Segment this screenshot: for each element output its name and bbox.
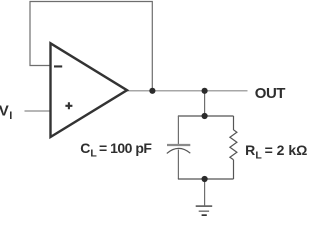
op-amp inverting input minus sign	[54, 65, 62, 67]
junction dot at load branch on output wire	[202, 88, 208, 94]
wire ground stem	[204, 179, 206, 206]
wire output node down to load network	[204, 91, 206, 116]
svg-text:OUT: OUT	[255, 85, 285, 102]
wire output from op-amp apex to OUT	[127, 90, 248, 92]
wire feedback loop from inverting input up over the top to output node	[30, 2, 152, 91]
capacitor CL curved bottom plate	[167, 148, 191, 153]
resistor RL zigzag	[230, 130, 237, 160]
wire load network top rail	[178, 115, 234, 117]
capacitor CL top plate	[167, 144, 190, 146]
wire resistor bottom lead	[233, 160, 235, 179]
svg-text:C: C	[80, 140, 90, 156]
wire capacitor bottom lead	[177, 150, 179, 180]
ground symbol	[196, 206, 213, 211]
svg-text:V: V	[0, 102, 9, 119]
wire resistor top lead	[233, 116, 235, 130]
svg-text:I: I	[9, 110, 12, 122]
wire load network bottom rail	[178, 178, 234, 180]
svg-text:= 2 kΩ: = 2 kΩ	[265, 142, 308, 158]
junction dot at load network bottom rail	[202, 176, 208, 182]
svg-text:L: L	[255, 150, 262, 162]
wire capacitor top lead	[177, 116, 179, 144]
junction dot at feedback/output node	[149, 88, 155, 94]
wire VI input to non-inverting input	[25, 110, 51, 112]
op-amp non-inverting input plus sign	[65, 102, 72, 109]
svg-text:L: L	[90, 148, 97, 160]
svg-text:= 100 pF: = 100 pF	[99, 140, 152, 156]
svg-text:R: R	[245, 142, 255, 158]
op-amp U1 triangle	[51, 43, 128, 137]
junction dot at load network top rail	[202, 113, 208, 119]
